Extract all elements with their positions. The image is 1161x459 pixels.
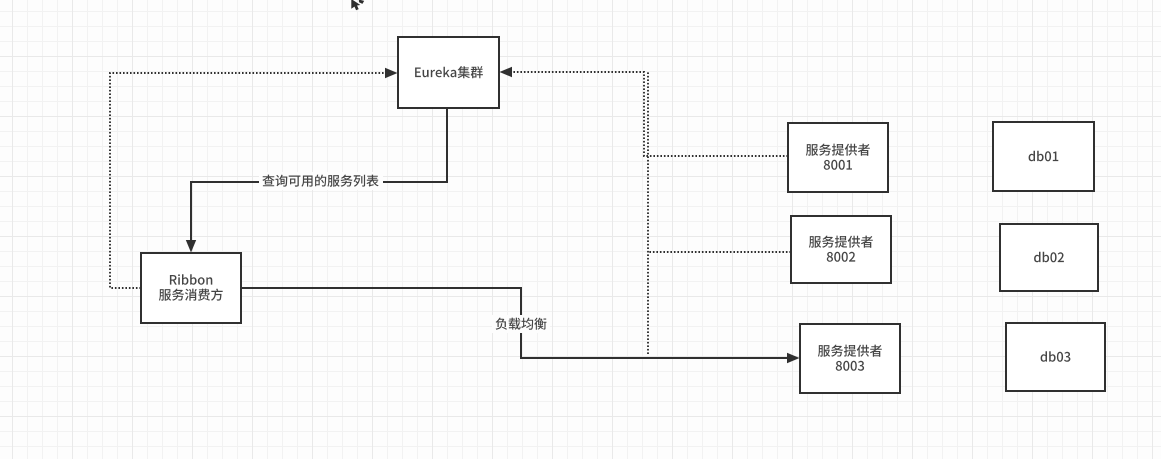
wire solid: Ribbon to provider 8003 (load balanced call): [241, 288, 787, 358]
wire dashed: provider 8002 to Eureka: [648, 251, 791, 253]
text 服务消费方: [159, 289, 223, 301]
box db01: [993, 122, 1094, 191]
cursor motion chevron: [359, 0, 364, 4]
arrowhead into Eureka right edge: [500, 67, 513, 77]
text db02: [1034, 252, 1064, 263]
arrowhead into Eureka left edge: [385, 68, 398, 78]
box 服务提供者 8003: [800, 324, 900, 393]
box db03: [1006, 323, 1105, 391]
text Eureka集群: [415, 66, 483, 78]
arrowhead into Ribbon top edge: [186, 240, 196, 253]
box Eureka集群: [398, 37, 499, 108]
wire solid: Eureka to Ribbon (query service list): [191, 108, 447, 241]
text 服务提供者 (8002): [809, 236, 873, 248]
label background (load balancing): [492, 315, 550, 333]
box db02: [1000, 224, 1098, 291]
arrowhead into 8003 left edge: [787, 353, 800, 363]
box 服务提供者 8001: [788, 123, 888, 192]
wire dashed: vertical shared by 8002/8003 connectors: [647, 72, 649, 354]
label background (query available service list): [259, 172, 383, 190]
wire dashed: provider 8001 to Eureka: [511, 72, 788, 156]
text db01: [1029, 151, 1059, 162]
box Ribbon 服务消费方: [141, 253, 241, 323]
text 服务提供者 (8001): [806, 144, 870, 156]
mouse cursor: [351, 0, 360, 10]
wire dashed: Ribbon to Eureka (register/fetch): [110, 73, 385, 288]
box 服务提供者 8002: [791, 216, 891, 283]
text Ribbon: [170, 274, 212, 285]
text db03: [1041, 351, 1071, 362]
label 查询可用的服务列表: [262, 175, 378, 187]
text 8003: [836, 361, 864, 371]
text 服务提供者 (8003): [818, 345, 882, 357]
text 8001: [824, 160, 852, 170]
text 8002: [827, 252, 855, 262]
label 负载均衡: [496, 318, 547, 330]
